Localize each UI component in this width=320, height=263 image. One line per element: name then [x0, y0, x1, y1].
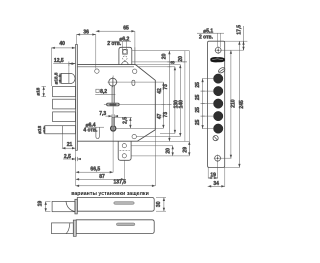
- bottom tab hole 2: [122, 154, 126, 158]
- rectangular deadbolt 2: [53, 99, 76, 109]
- label d5,1 2 holes: [197, 33, 224, 47]
- svg-text:73: 73: [163, 84, 169, 90]
- latch variant 1 slot: [114, 202, 134, 205]
- upper keyhole mark: [218, 67, 226, 75]
- svg-text:20: 20: [165, 148, 171, 154]
- svg-text:17,5: 17,5: [237, 25, 243, 35]
- dim 40: [51, 48, 75, 86]
- dim 245: [225, 41, 240, 167]
- svg-text:29: 29: [182, 147, 188, 153]
- rectangular deadbolt 1: [53, 86, 76, 96]
- plate top screw hole: [214, 46, 222, 54]
- svg-text:2,5: 2,5: [64, 154, 71, 160]
- dim 30 latch: [156, 198, 166, 212]
- round deadbolt (d18.8): [60, 73, 75, 83]
- svg-text:⌀5,1: ⌀5,1: [203, 28, 213, 34]
- svg-text:21: 21: [67, 142, 73, 148]
- dim 130: [174, 67, 176, 134]
- dim 137,5: [76, 130, 156, 186]
- label d6,2 2 holes: [108, 41, 131, 49]
- dim 65: [96, 31, 135, 64]
- latch variant 2 bolt head: [52, 223, 74, 234]
- dim 2,5 slot: [115, 117, 133, 128]
- svg-text:36: 36: [83, 29, 89, 35]
- svg-text:2,5: 2,5: [123, 117, 129, 124]
- label d18,8: [59, 73, 61, 83]
- latch variant 1 bolt head: [52, 201, 75, 211]
- cover hole 5: [214, 124, 223, 133]
- spindle hole (cylinder circle): [108, 77, 118, 87]
- cover hole 3: [214, 99, 223, 108]
- top tab lower arc: [122, 61, 128, 64]
- keyhole slot: [107, 103, 120, 106]
- top tab square hole with screw circle: [123, 49, 128, 54]
- latch variant 1 body: [77, 198, 154, 212]
- svg-text:20: 20: [178, 56, 184, 62]
- svg-text:4 отв.: 4 отв.: [83, 128, 98, 134]
- svg-text:19: 19: [210, 172, 216, 178]
- svg-text:8: 8: [171, 61, 177, 64]
- lock faceplate (edge view): [76, 45, 78, 151]
- svg-text:66,5: 66,5: [90, 167, 100, 173]
- logo plaque: [210, 57, 225, 62]
- top mounting tab: [119, 47, 135, 64]
- svg-text:8,2: 8,2: [100, 89, 107, 95]
- dim 17,5: [221, 26, 247, 50]
- cylinder center leader: [117, 81, 164, 83]
- cover hole 2: [214, 86, 223, 95]
- svg-text:20: 20: [162, 53, 168, 59]
- rivet hole bottom-right: [132, 134, 136, 138]
- svg-text:12,5: 12,5: [54, 58, 64, 64]
- svg-text:30: 30: [156, 201, 162, 207]
- svg-text:19: 19: [38, 201, 44, 207]
- svg-text:варианты установки защелки: варианты установки защелки: [71, 191, 149, 197]
- dim 210: [221, 50, 232, 158]
- svg-text:87: 87: [99, 174, 105, 180]
- dim 34 plate: [208, 167, 225, 186]
- vertical center line: [112, 76, 114, 134]
- dim chain 42/47: [161, 82, 165, 128]
- svg-text:2 отв.: 2 отв.: [107, 41, 122, 47]
- lock body outline: [77, 65, 155, 142]
- dim 19 latch: [46, 201, 51, 211]
- label d18 bolt4: [43, 126, 45, 134]
- plate bottom screw hole: [214, 154, 222, 162]
- svg-text:140: 140: [179, 100, 185, 109]
- svg-text:73: 73: [163, 112, 169, 118]
- svg-text:7,3: 7,3: [99, 111, 106, 117]
- right extension lines: [131, 51, 189, 156]
- dim chain 20/8/73/73: [167, 51, 171, 142]
- rivet hole top-left: [95, 69, 99, 73]
- bottom tab hole 1: [122, 144, 126, 148]
- rivet hole top-right: [133, 69, 137, 73]
- dim 87: [76, 160, 125, 179]
- dim 29: [188, 51, 190, 156]
- dim 66,5: [76, 134, 114, 173]
- svg-text:⌀18,8: ⌀18,8: [53, 72, 58, 84]
- svg-text:25: 25: [195, 119, 201, 125]
- bottom mounting tab: [118, 141, 131, 160]
- svg-text:25: 25: [195, 107, 201, 113]
- top tab hidden circle (dashed): [123, 56, 127, 60]
- svg-text:65: 65: [123, 25, 129, 31]
- dim 20 upper second: [183, 51, 187, 142]
- dim 21: [62, 134, 76, 148]
- svg-text:⌀18: ⌀18: [37, 125, 42, 133]
- rectangular deadbolt 3: [53, 112, 76, 122]
- dim chain 25x4: [201, 79, 214, 129]
- label square 8,2: [95, 86, 115, 103]
- armored face plate: [208, 41, 225, 167]
- svg-text:⌀18: ⌀18: [35, 87, 40, 95]
- cover hole 1: [214, 74, 223, 83]
- label d6,4 4 holes: [86, 126, 104, 128]
- svg-text:25: 25: [195, 82, 201, 88]
- svg-text:34: 34: [213, 181, 219, 187]
- svg-text:137,5: 137,5: [114, 180, 127, 186]
- cover hole 4: [214, 111, 223, 120]
- rectangular deadbolt 4 (lower): [45, 126, 76, 134]
- lower circle leader: [116, 127, 163, 129]
- dim 2,5 left: [63, 157, 81, 161]
- svg-text:245: 245: [239, 100, 245, 109]
- dim 140: [179, 65, 181, 137]
- latch variant 1 faceplate: [75, 199, 77, 214]
- lower pin circle: [111, 126, 116, 131]
- svg-text:210: 210: [230, 99, 236, 108]
- latch variant 2 faceplate: [73, 220, 76, 236]
- dim 36: [76, 35, 95, 69]
- horizontal center line (keyhole axis): [104, 103, 170, 105]
- narrow slot above lower circle: [112, 117, 115, 126]
- latch variant 2 slot: [116, 223, 134, 226]
- bottom tab dashed center line: [120, 150, 130, 152]
- slotted hole bottom-left: [96, 127, 99, 138]
- dim 7,3: [105, 114, 118, 118]
- lower keyhole mark: [213, 136, 218, 141]
- svg-text:40: 40: [59, 41, 65, 47]
- latch variant 2 body: [76, 220, 154, 234]
- label d18 bolt1: [42, 86, 47, 96]
- svg-text:2 отв.: 2 отв.: [199, 35, 214, 41]
- dim 12,5: [53, 62, 75, 74]
- dim 19 plate: [208, 161, 218, 178]
- svg-text:25: 25: [195, 94, 201, 100]
- dim 20 bottom tab: [172, 146, 174, 156]
- small slot right of cylinder: [132, 80, 135, 85]
